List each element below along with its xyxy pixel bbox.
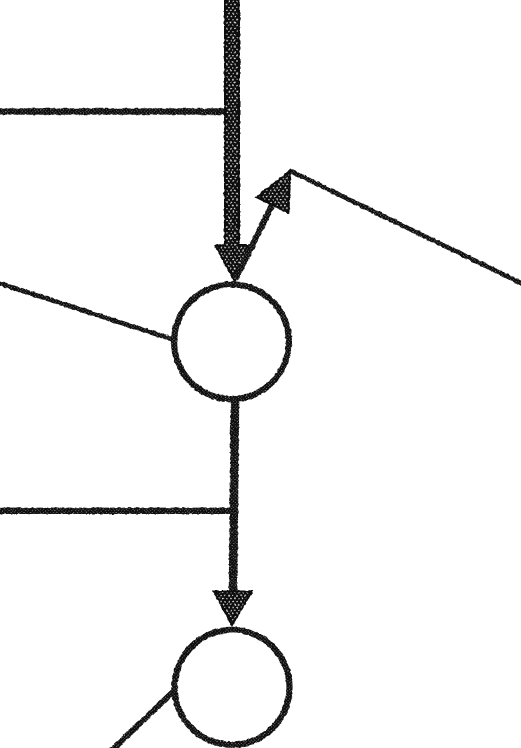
wire: lower-left horizontal edge [0, 508, 233, 514]
wire: vertical edge from node N1 to node N2 [233, 397, 235, 594]
arrow: thin shaded arrow pointing up-right from node N1 [236, 171, 291, 280]
node N1: upper circle [174, 284, 289, 399]
wire: top-left horizontal edge into thick arrow [0, 108, 232, 114]
wire: diagonal edge from arrow tip to right border [290, 171, 521, 285]
wire: bottom-left diagonal edge into node N2 [110, 689, 176, 748]
node N2: lower circle [175, 630, 290, 745]
arrow: arrowhead into node N2 [214, 592, 252, 626]
arrow: thick shaded vertical arrow into node N1 [216, 0, 251, 282]
wire: left diagonal edge into node N1 [0, 283, 176, 341]
